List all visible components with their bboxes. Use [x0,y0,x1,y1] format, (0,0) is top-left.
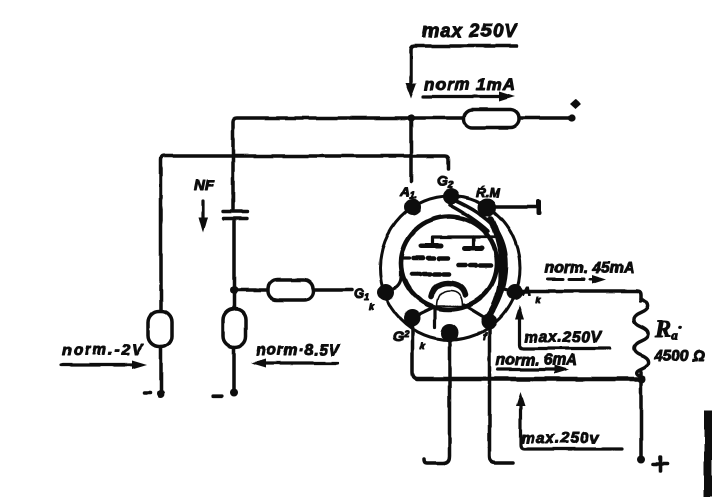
resistor R2 vertical left [148,311,172,347]
svg-text:norm 1mA: norm 1mA [424,75,516,94]
terminal dot right of R1 [568,114,575,121]
pin G1 left [378,284,395,301]
shield ribbon inner line [450,205,488,231]
anode plate left [422,243,442,248]
heater wire left with hook [424,341,450,463]
pin G2 top [443,189,459,205]
grid row 2 right dashes [459,263,491,268]
shield ribbon from G2 top pin [454,200,507,312]
grid row 1 dashes [414,256,448,261]
terminal dot below R2 [157,390,165,398]
wire below R4 [232,347,236,390]
arrow right for norm -2V [61,363,133,366]
arrowhead down [406,83,417,98]
wire below R2 [159,347,163,391]
cathode dome white inner [437,291,463,307]
scan bar right edge [704,411,712,497]
arrow left for norm 8.5V [265,361,338,364]
annotation underline and up arrow (mid) [520,317,611,349]
resistor R3 horizontal grid stopper [268,280,313,300]
cathode lead to F pin [464,305,487,319]
anode plate right stem [471,237,474,246]
wire junction down to R4 [232,290,236,309]
pin F bottom-right [481,314,497,330]
minus tick [213,394,222,397]
junction node at 234,290 [230,286,238,294]
svg-text:norm.-2V: norm.-2V [62,342,144,359]
pin RM [478,199,496,217]
g2 bottom-left pin lead [413,307,434,317]
cathode dome [431,283,466,297]
cathode lead down [433,309,436,327]
anode bus internal [433,237,512,291]
heater wire right with hook [490,329,514,463]
pin A right [507,284,523,300]
wire down to plus terminal [640,379,644,456]
tube envelope outer circle [380,196,520,340]
pin A1 [404,199,421,216]
junction at Ra bottom [638,375,646,383]
wire annotation line under max 250V with down arrow [411,46,517,85]
tube inner circle [401,217,497,310]
svg-text:max.250V: max.250V [524,329,603,346]
tick left of terminal [144,391,150,395]
grid bracket connection to G1 pin [390,258,410,290]
svg-text:norm·8.5V: norm·8.5V [256,342,341,359]
wire from junction down to anode pin A1 [409,118,413,181]
svg-text:max 250V: max 250V [422,21,518,42]
plus sign [653,457,667,471]
wire R3 to G1 pin [313,288,352,292]
wire capacitor to junction [232,221,236,290]
svg-text:4500 Ω: 4500 Ω [653,348,705,365]
wire junction to R3 [234,288,268,292]
pin G2 bottom-left [404,310,421,327]
grid row 3 dashes [412,272,449,277]
resistor R1 horizontal [464,110,519,128]
svg-text:norm. 6mA: norm. 6mA [496,352,577,369]
dashed arrow norm 45mA [548,278,592,281]
metallization heavy arc [489,219,503,316]
annotation underline and up arrow (bottom) [521,404,623,449]
bus thick bottom wire [417,377,643,382]
wire Ra bottom [639,372,643,379]
capacitor C1 plate top [223,210,247,213]
wire G2 bottom-left down [413,326,420,379]
wire RM to cap terminal [494,205,537,208]
junction node at 411,118 [407,114,414,121]
svg-text:NF: NF [194,177,215,194]
pin K bottom [441,324,459,342]
wire main top rail y=118 [233,118,572,209]
wire second rail y=156 from left column to G2 top [161,156,449,311]
wire anode to Ra [521,291,641,301]
resistor Ra zigzag [634,299,648,376]
terminal dot below R4 [230,389,238,397]
capacitor C1 plate bottom [223,217,247,220]
arrow NF down [201,201,204,219]
grid cap terminal bar [536,200,541,216]
terminal dot bottom [638,455,646,463]
svg-text:Ra·: Ra· [654,316,682,343]
plus diamond marker [570,99,581,109]
arrow right under norm 1mA [423,95,501,98]
svg-text:norm. 45mA: norm. 45mA [545,260,635,277]
resistor R4 vertical [223,309,246,347]
arrow norm 6mA [498,368,555,371]
svg-text:Ŕ.M: Ŕ.M [476,185,501,200]
anode plate right [464,246,482,251]
svg-text:max.250v: max.250v [521,430,600,447]
